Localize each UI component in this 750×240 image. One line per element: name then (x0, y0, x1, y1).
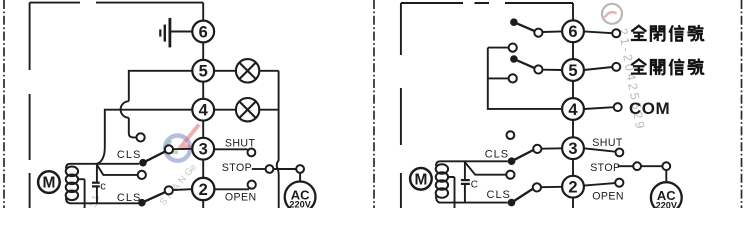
wire terminal5 to output (right) (584, 67, 613, 70)
wire CLS-1 to terminal 3 (173, 148, 192, 150)
wire lamp2 to bus (259, 109, 278, 111)
wire column 4-3 (right) (572, 120, 574, 137)
wire winding top (right) (436, 161, 508, 166)
output contact full-close signal (612, 29, 620, 37)
wire column 5-4 (right) (572, 81, 574, 98)
watermark logo (left) (165, 125, 199, 161)
SHUT button contact (248, 149, 256, 157)
wire column below 2 (right) (572, 198, 574, 208)
svg-text:CLS: CLS (485, 149, 509, 161)
svg-text:4: 4 (199, 102, 209, 120)
svg-text:220V: 220V (656, 200, 678, 208)
motor winding coil (66, 167, 78, 201)
wire STOP label to contact (right) (618, 165, 634, 167)
wire CLS-1 to terminal 3 (right) (541, 147, 562, 149)
wire column 3-2 (right) (572, 159, 574, 176)
wire column 6-5 (202, 42, 204, 60)
contact circle (close-signal throw) (509, 44, 517, 52)
terminal 4 (192, 99, 214, 121)
svg-text:3: 3 (568, 140, 577, 158)
svg-text:STOP: STOP (590, 162, 620, 174)
svg-text:OPEN: OPEN (592, 190, 624, 202)
contact circle (CLS open throw) (138, 171, 146, 179)
svg-text:220V: 220V (289, 200, 311, 208)
wire winding tap (78, 179, 85, 208)
label 全閉信號 (632, 26, 703, 41)
limit switch (full-close signal) moving dot (510, 18, 518, 26)
terminal 6 (192, 21, 214, 43)
wire winding bottom (66, 198, 140, 204)
limit switch CLS-2 common dot (138, 199, 146, 207)
wire terminal5 to lamp1 (214, 70, 236, 72)
wire CLS-2 to terminal 2 (right) (541, 186, 562, 188)
wire winding tap (right) (448, 177, 454, 208)
SHUT button contact (right) (616, 149, 624, 157)
limit switch (full-open signal) blade (514, 59, 535, 68)
wire CLS-2 to terminal 2 (173, 188, 192, 191)
limit switch CLS-1 common dot (139, 159, 147, 167)
limit switch (full-close signal) pivot circle (534, 29, 542, 37)
OPEN button contact (248, 181, 256, 189)
wire STOP contacts (right) (641, 165, 662, 167)
terminal 5 (192, 60, 214, 82)
limit switch CLS-2 blade (right) (512, 189, 534, 203)
svg-text:COM: COM (629, 99, 670, 118)
wire column 3-2 (202, 160, 204, 179)
svg-text:2: 2 (199, 181, 208, 199)
wire terminal3 to SHUT button (214, 148, 248, 150)
limit switch CLS-2 pivot circle (165, 186, 173, 194)
wire switch to terminal 6 (right) (543, 30, 563, 33)
wire crossover hop (121, 101, 129, 117)
watermark text SHANG (left) (88, 163, 197, 208)
wire terminal6 to enclosure top (right) (572, 3, 574, 20)
terminal 2 (right) (562, 176, 584, 198)
STOP button contact right (right) (662, 162, 670, 170)
limit switch CLS-1 pivot circle (right) (533, 145, 541, 153)
STOP button contact right (296, 165, 304, 173)
wire terminal2 to OPEN button (214, 188, 249, 190)
capacitor C (right) (461, 161, 478, 202)
motor winding coil (right) (436, 164, 448, 198)
terminal 3 (right) (562, 137, 584, 159)
wire throw stub lower (488, 77, 509, 79)
STOP button contact left (right) (633, 162, 641, 170)
ground (160, 18, 192, 48)
wire lamp bus vertical with crossover jog (277, 71, 279, 208)
svg-text:M: M (414, 171, 427, 188)
svg-text:M: M (42, 175, 55, 192)
limit switch CLS-1 blade (143, 150, 169, 163)
wire lamp1 to bus (259, 70, 278, 72)
svg-text:CLS: CLS (117, 149, 141, 161)
wire hop to contact circle (129, 118, 137, 138)
wire STOP contacts (273, 168, 296, 170)
contact circle (CLS open throw, right) (506, 171, 514, 179)
wire common bracket to terminal 4 (right) (488, 48, 562, 109)
STOP button contact left (266, 165, 274, 173)
limit switch CLS-1 common dot (right) (508, 157, 516, 165)
svg-text:6: 6 (568, 23, 577, 41)
OPEN button contact (right) (615, 179, 623, 187)
wire terminal3 to SHUT button (right) (584, 148, 616, 151)
svg-text:CLS: CLS (117, 192, 141, 204)
wire terminal4 to lamp2 (214, 109, 236, 111)
svg-text:6: 6 (199, 23, 208, 41)
wire terminal5 branch to CLS upper contact (129, 71, 193, 102)
terminal 3 (192, 138, 214, 160)
terminal 5 (right) (562, 59, 584, 81)
svg-text:SHUT: SHUT (225, 137, 256, 149)
wire throw stub upper (488, 47, 509, 49)
svg-text:5: 5 (199, 63, 208, 81)
terminal 2 (192, 178, 214, 200)
wire node to CLS lower contact (right) (465, 162, 507, 175)
limit switch (full-open signal) pivot circle (534, 65, 542, 73)
wire switch to terminal 5 (right) (543, 69, 563, 71)
terminal 4 (right) (562, 98, 584, 120)
wire winding top (66, 164, 139, 169)
lamp (open indicator) (236, 59, 259, 82)
limit switch (full-open signal) moving dot (510, 55, 518, 63)
limit switch CLS-2 common dot (right) (508, 199, 516, 207)
wire column 4-3 (202, 121, 204, 138)
contact circle (CLS close throw) (137, 133, 145, 141)
enclosure border (left actuator housing, dashed) (30, 3, 204, 208)
svg-text:5: 5 (568, 62, 577, 80)
svg-text:OPEN: OPEN (225, 192, 257, 204)
svg-text:3: 3 (199, 141, 208, 159)
AC 220V source (right) (651, 182, 682, 213)
svg-text:c: c (100, 180, 106, 192)
wire column 5-4 (202, 82, 204, 99)
wire node to CLS lower contact (97, 165, 138, 175)
wire terminal2 to OPEN button (right) (584, 183, 615, 186)
AC 220V source (285, 182, 316, 213)
capacitor C (92, 164, 106, 204)
lamp (close indicator) (236, 98, 259, 121)
enclosure border (right actuator housing, dashed) (401, 3, 573, 208)
terminal 6 (right) (562, 20, 584, 42)
label 全開信號 (632, 59, 703, 74)
svg-text:2: 2 (568, 179, 577, 197)
output contact COM (614, 103, 622, 111)
wire column below 2 (202, 200, 204, 208)
svg-text:CLS: CLS (487, 189, 511, 201)
limit switch CLS-1 blade (right) (512, 150, 534, 161)
svg-text:4: 4 (568, 101, 578, 119)
output contact full-open signal (612, 63, 620, 71)
svg-text:SHUT: SHUT (592, 137, 623, 149)
limit switch CLS-1 pivot circle (165, 145, 173, 153)
wire STOP to AC source (299, 173, 301, 182)
wire terminal6 to enclosure top (202, 3, 204, 21)
wire STOP label to contact (252, 168, 266, 170)
contact circle (open-signal throw) (509, 74, 517, 82)
wire terminal4 branch down to winding node (97, 110, 192, 164)
wire winding bottom (right) (436, 196, 508, 203)
svg-text:C: C (471, 180, 478, 191)
wire terminal6 to output (right) (584, 31, 612, 33)
motor M (38, 171, 60, 193)
watermark copyright logo (right) (602, 4, 622, 24)
contact circle (unconnected throw, right) (507, 131, 515, 139)
limit switch (full-close signal) blade (514, 22, 535, 31)
limit switch CLS-2 blade (142, 191, 169, 203)
wire terminal4 to COM output (584, 107, 614, 109)
svg-text:®: ® (190, 164, 196, 173)
wire STOP to AC source (right) (665, 170, 667, 182)
wire column 6-5 (right) (572, 42, 574, 59)
svg-text:STOP: STOP (222, 162, 252, 174)
motor M (right) (410, 168, 432, 190)
limit switch CLS-2 pivot circle (right) (533, 183, 541, 191)
